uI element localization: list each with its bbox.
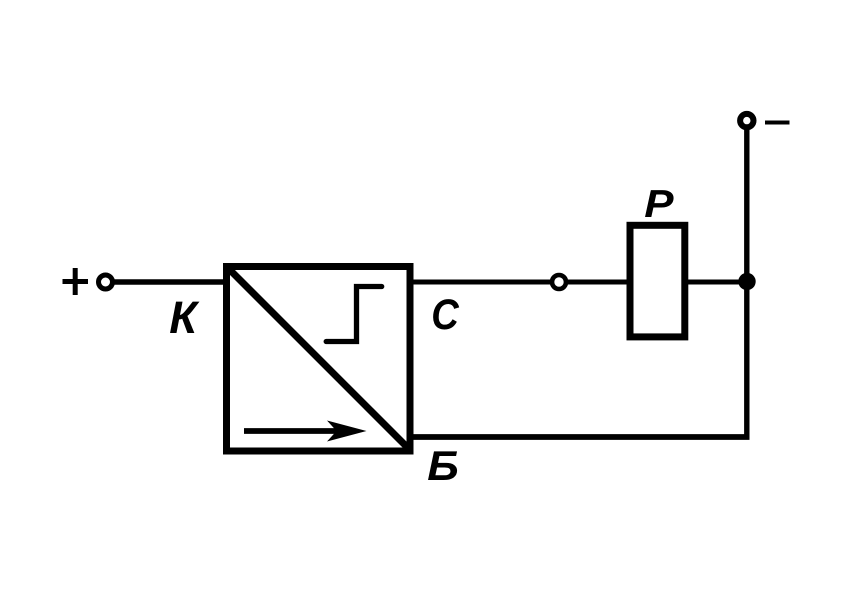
svg-text:Б: Б [427,443,459,489]
threshold element box U1 [227,267,411,452]
wire from box C output to mid terminal circle [410,280,553,285]
wire from box B output to vertical wire [410,434,750,440]
step (threshold) symbol inside box [326,287,382,342]
terminal circle left [99,275,113,289]
plus terminal label + [63,268,89,295]
minus terminal label [765,121,790,125]
terminal circle minus [740,114,753,127]
node C label [431,290,459,339]
vertical wire from minus terminal through junction to bottom wire [744,129,749,437]
svg-text:С: С [431,290,459,339]
wire from left terminal to box K input [113,279,225,285]
node B label [427,443,459,489]
arrow symbol inside box [244,421,367,442]
relay coil P [630,225,685,337]
node K label [169,292,200,343]
junction dot [738,273,755,290]
wire from mid circle to relay P [566,280,628,285]
relay P label [644,181,674,225]
svg-text:Р: Р [644,181,674,225]
wire from relay P to junction [685,280,747,285]
diagonal divider of box [228,268,409,449]
svg-text:К: К [169,292,200,343]
terminal circle mid [552,275,566,289]
